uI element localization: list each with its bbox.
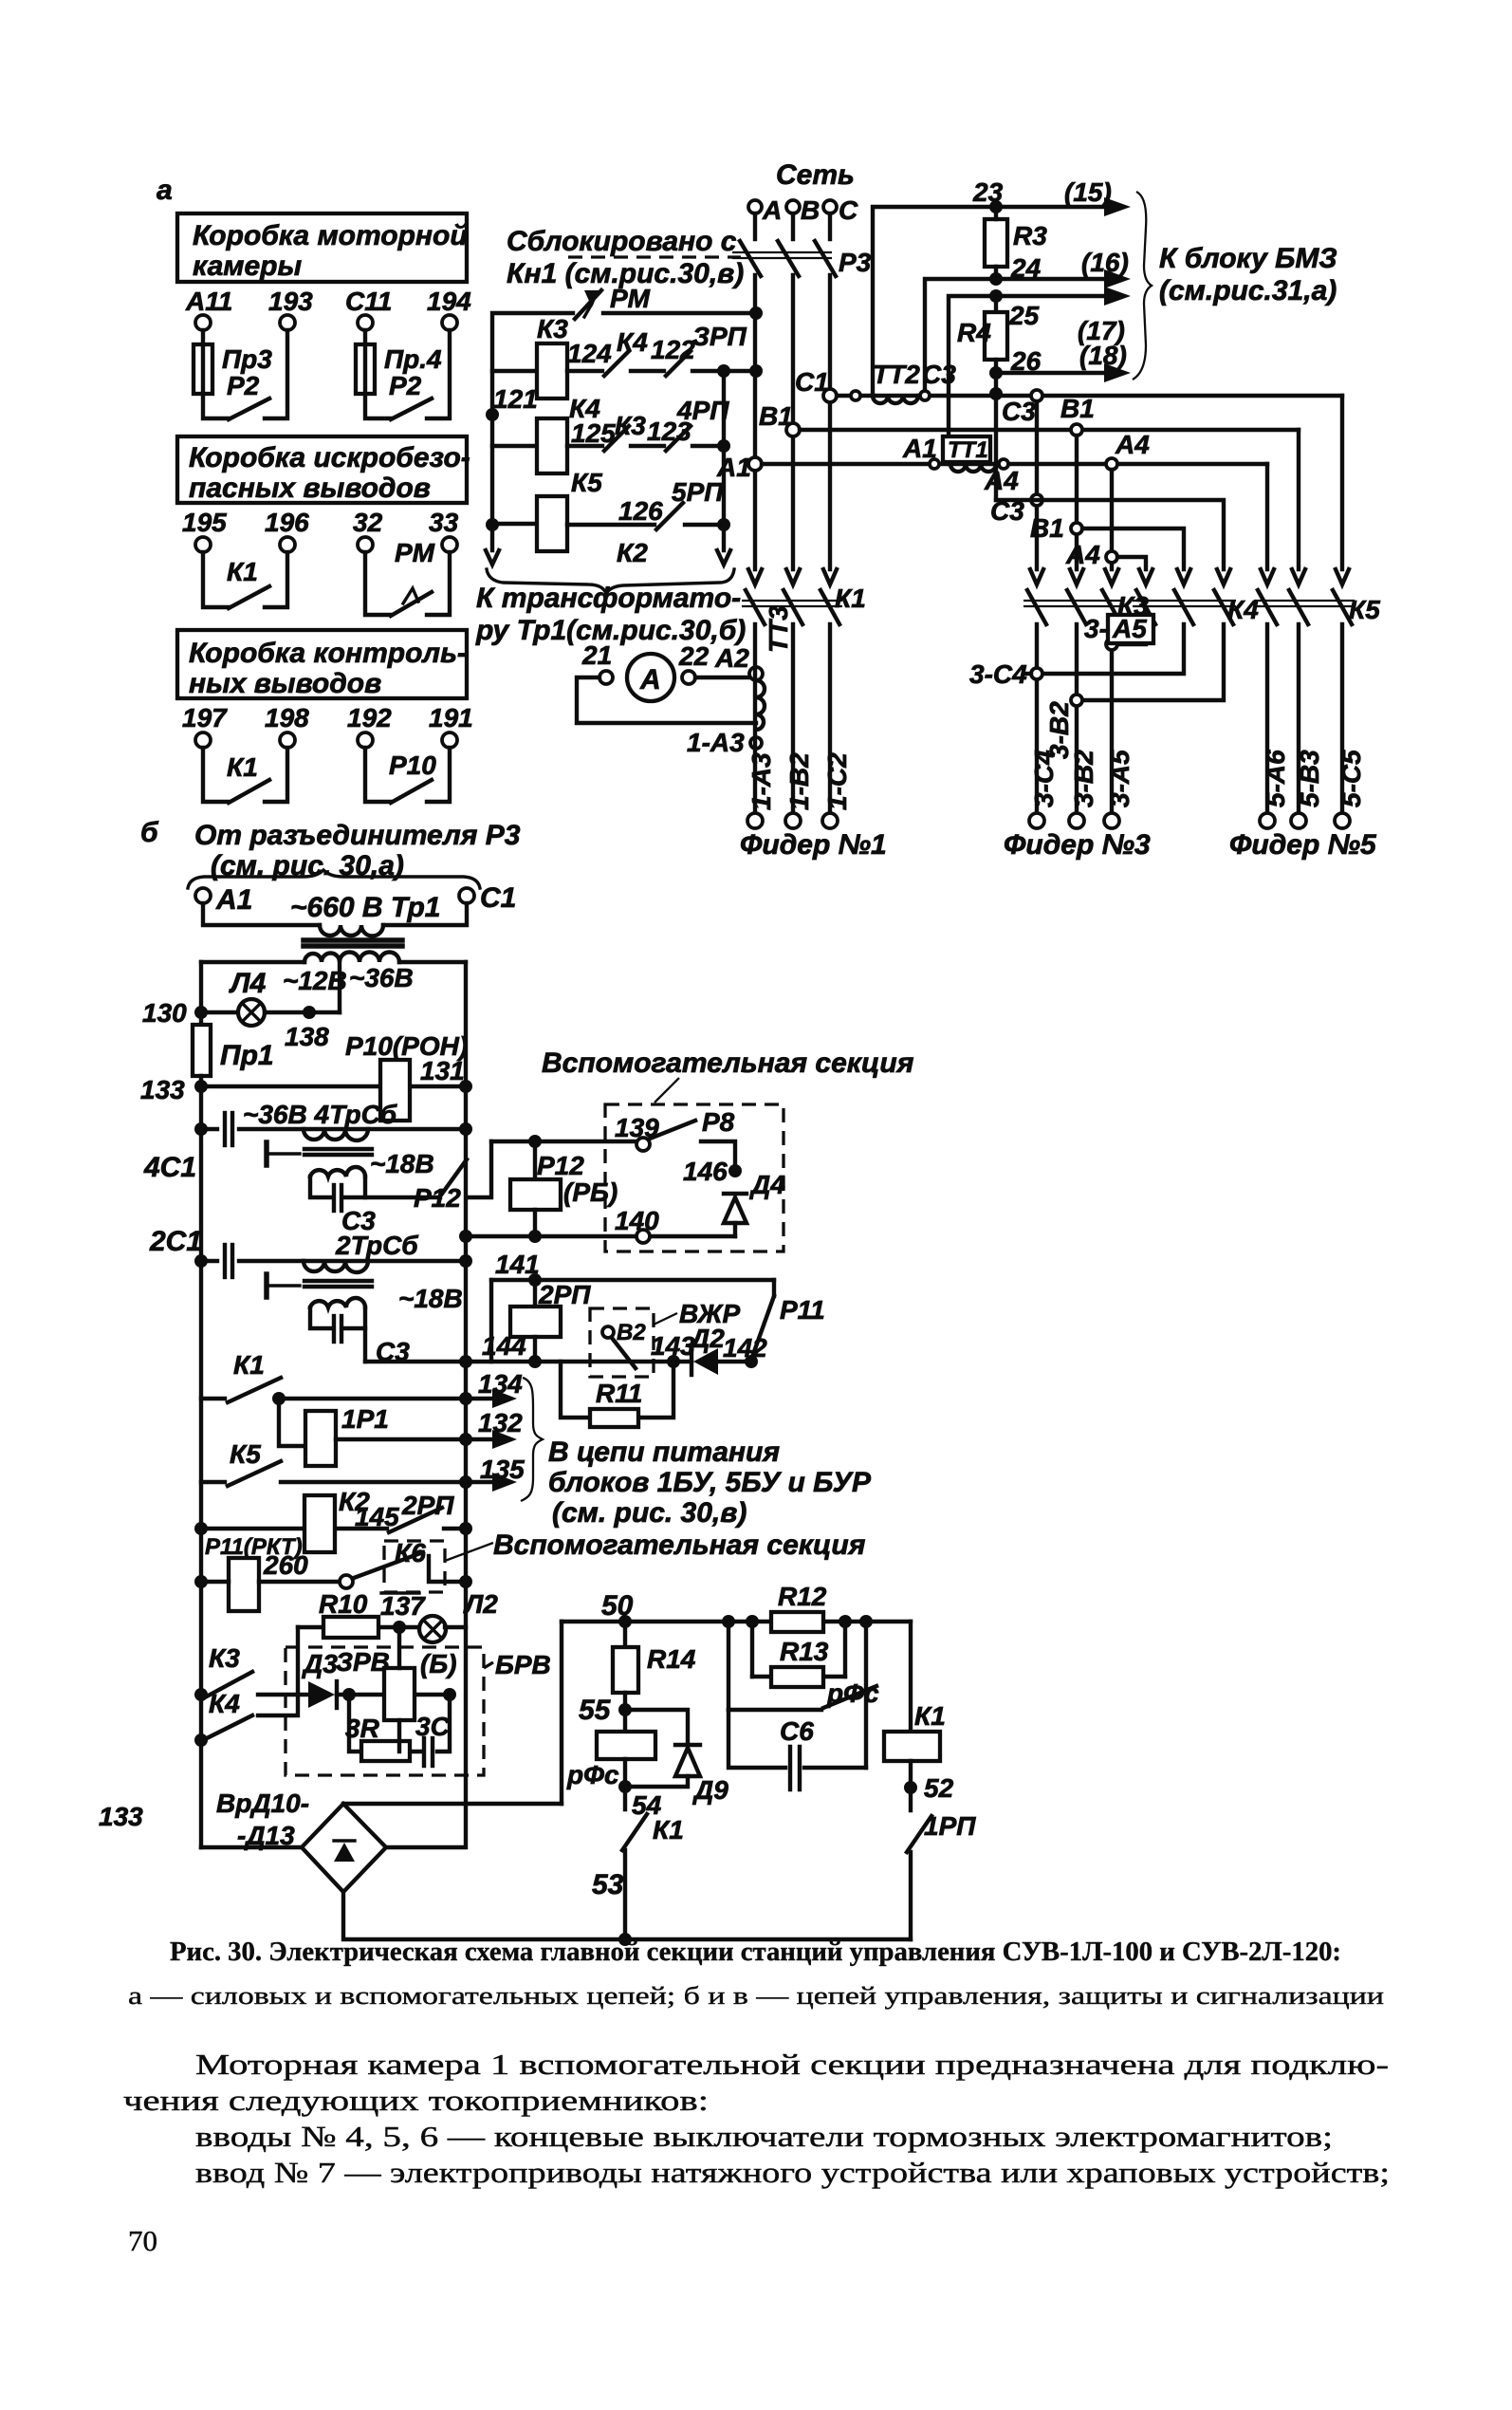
svg-text:5-В3: 5-В3 xyxy=(1295,750,1324,807)
svg-text:2РП: 2РП xyxy=(401,1491,454,1520)
svg-text:БРВ: БРВ xyxy=(495,1650,551,1679)
svg-text:А1: А1 xyxy=(716,453,751,482)
svg-text:К3: К3 xyxy=(209,1643,240,1673)
svg-text:140: 140 xyxy=(615,1206,659,1235)
svg-text:R12: R12 xyxy=(778,1582,827,1611)
svg-text:Фидер №3: Фидер №3 xyxy=(1004,829,1151,861)
svg-text:ТТ2: ТТ2 xyxy=(873,360,920,389)
svg-text:Рис. 30. Электрическая схема: Рис. 30. Электрическая схема главной сек… xyxy=(170,1937,1341,1967)
svg-text:А1: А1 xyxy=(215,884,252,916)
svg-text:R3: R3 xyxy=(1013,221,1047,250)
svg-text:5-С5: 5-С5 xyxy=(1337,750,1366,807)
svg-text:139: 139 xyxy=(615,1113,659,1142)
svg-text:2ТрСб: 2ТрСб xyxy=(335,1231,418,1260)
svg-text:РМ: РМ xyxy=(610,284,651,313)
svg-text:К6: К6 xyxy=(395,1538,426,1567)
svg-text:192: 192 xyxy=(347,703,392,732)
svg-text:Л2: Л2 xyxy=(463,1589,498,1619)
svg-text:К1: К1 xyxy=(653,1815,684,1845)
svg-text:Д9: Д9 xyxy=(692,1775,728,1805)
svg-text:125: 125 xyxy=(571,418,616,448)
svg-text:С1: С1 xyxy=(795,367,829,397)
svg-text:вводы № 4, 5, 6 — концевые вык: вводы № 4, 5, 6 — концевые выключатели т… xyxy=(195,2120,1333,2153)
svg-text:Л4: Л4 xyxy=(229,968,267,999)
svg-text:(15): (15) xyxy=(1064,177,1112,207)
svg-text:В1: В1 xyxy=(1060,394,1095,423)
svg-text:Р8: Р8 xyxy=(702,1107,735,1137)
svg-text:143: 143 xyxy=(651,1331,695,1361)
svg-text:Д4: Д4 xyxy=(749,1170,785,1199)
svg-text:3-В2: 3-В2 xyxy=(1069,750,1098,807)
svg-text:ТТ3: ТТ3 xyxy=(764,605,793,653)
svg-text:3-С4: 3-С4 xyxy=(1029,750,1059,807)
svg-text:1-В2: 1-В2 xyxy=(784,752,814,810)
svg-text:рФс: рФс xyxy=(566,1760,619,1789)
svg-text:В: В xyxy=(801,195,820,225)
svg-text:К1: К1 xyxy=(227,752,258,782)
svg-text:1-С2: 1-С2 xyxy=(822,752,852,810)
svg-text:198: 198 xyxy=(265,703,309,732)
svg-text:193: 193 xyxy=(268,287,313,316)
svg-text:С3: С3 xyxy=(922,360,956,389)
svg-text:3-: 3- xyxy=(1084,614,1108,643)
svg-text:144: 144 xyxy=(482,1331,526,1361)
svg-text:(РБ): (РБ) xyxy=(563,1177,618,1207)
svg-text:К5: К5 xyxy=(1349,595,1380,624)
svg-text:5РП: 5РП xyxy=(672,477,724,507)
svg-text:196: 196 xyxy=(265,508,309,537)
svg-text:26: 26 xyxy=(1010,346,1042,376)
svg-text:А: А xyxy=(639,664,661,695)
svg-text:камеры: камеры xyxy=(193,250,302,282)
svg-text:А11: А11 xyxy=(185,287,232,316)
svg-text:Пр.4: Пр.4 xyxy=(384,344,442,374)
svg-text:Вспомогательная секция: Вспомогательная секция xyxy=(542,1047,914,1079)
svg-text:R14: R14 xyxy=(647,1644,696,1674)
svg-text:R11: R11 xyxy=(596,1379,642,1408)
svg-text:53: 53 xyxy=(592,1869,624,1900)
svg-text:рФс: рФс xyxy=(826,1678,879,1708)
svg-text:70: 70 xyxy=(128,2224,157,2257)
svg-text:~12В: ~12В xyxy=(283,966,347,995)
svg-text:К1: К1 xyxy=(233,1350,265,1380)
svg-text:К4: К4 xyxy=(1227,595,1259,624)
svg-text:1-А3: 1-А3 xyxy=(687,728,745,757)
svg-text:3С: 3С xyxy=(415,1712,451,1741)
svg-text:ных выводов: ных выводов xyxy=(189,668,381,699)
svg-text:С11: С11 xyxy=(345,287,392,316)
svg-text:В цепи питания: В цепи питания xyxy=(548,1437,780,1468)
svg-text:ЗРВ: ЗРВ xyxy=(336,1647,390,1677)
svg-text:50: 50 xyxy=(601,1590,634,1622)
svg-text:(16): (16) xyxy=(1081,248,1129,277)
svg-text:А4: А4 xyxy=(1065,540,1100,569)
svg-text:К блоку БМЗ: К блоку БМЗ xyxy=(1159,243,1337,274)
svg-text:К2: К2 xyxy=(617,538,648,567)
svg-text:В2: В2 xyxy=(617,1320,646,1345)
svg-text:~18В: ~18В xyxy=(398,1284,463,1313)
svg-text:К3: К3 xyxy=(537,314,568,343)
svg-text:А4: А4 xyxy=(984,466,1019,495)
svg-text:К5: К5 xyxy=(571,468,602,497)
svg-text:Р11: Р11 xyxy=(780,1295,825,1325)
svg-text:~36В 4ТрСб: ~36В 4ТрСб xyxy=(243,1100,397,1129)
svg-text:1-А3: 1-А3 xyxy=(747,752,776,810)
svg-text:124: 124 xyxy=(567,339,612,368)
svg-text:С: С xyxy=(839,195,858,225)
svg-text:~18В: ~18В xyxy=(370,1149,434,1178)
svg-text:Коробка контроль-: Коробка контроль- xyxy=(189,638,467,669)
svg-text:24: 24 xyxy=(1010,253,1042,283)
svg-text:Сблокировано с: Сблокировано с xyxy=(507,226,737,257)
svg-text:~36В: ~36В xyxy=(349,963,414,992)
svg-text:23: 23 xyxy=(972,177,1004,207)
svg-text:К3: К3 xyxy=(615,411,646,440)
svg-text:(см. рис. 30,в): (см. рис. 30,в) xyxy=(552,1497,747,1529)
svg-text:146: 146 xyxy=(683,1157,728,1186)
svg-text:В1: В1 xyxy=(1030,513,1064,543)
svg-text:R4: R4 xyxy=(957,318,991,347)
svg-text:Р12: Р12 xyxy=(414,1183,461,1213)
svg-text:3-С4: 3-С4 xyxy=(969,659,1027,689)
svg-text:3R: 3R xyxy=(345,1714,380,1743)
svg-text:R13: R13 xyxy=(780,1637,829,1666)
svg-text:Коробка моторной: Коробка моторной xyxy=(193,220,468,251)
svg-text:32: 32 xyxy=(353,508,383,537)
svg-text:С6: С6 xyxy=(780,1716,814,1746)
svg-text:От разъединителя Р3: От разъединителя Р3 xyxy=(194,820,521,851)
svg-text:142: 142 xyxy=(723,1333,767,1363)
svg-text:(Б): (Б) xyxy=(420,1649,456,1678)
svg-text:133: 133 xyxy=(99,1802,143,1831)
svg-text:130: 130 xyxy=(142,998,187,1028)
svg-text:А: А xyxy=(762,195,782,225)
svg-text:191: 191 xyxy=(429,703,473,732)
svg-text:22: 22 xyxy=(678,641,710,671)
svg-text:чения следующих токоприемников: чения следующих токоприемников: xyxy=(123,2084,709,2117)
svg-text:К4: К4 xyxy=(617,327,648,357)
svg-text:1Р1: 1Р1 xyxy=(341,1404,389,1434)
svg-text:К трансформато-: К трансформато- xyxy=(476,583,741,614)
svg-text:1РП: 1РП xyxy=(924,1811,976,1841)
svg-text:ТТ1: ТТ1 xyxy=(948,437,988,463)
svg-text:Пр1: Пр1 xyxy=(220,1040,274,1071)
svg-text:Коробка искробезо-: Коробка искробезо- xyxy=(189,442,470,473)
svg-text:Д3: Д3 xyxy=(302,1649,338,1678)
svg-text:Фидер №5: Фидер №5 xyxy=(1229,829,1377,861)
svg-text:122: 122 xyxy=(651,335,695,364)
svg-text:21: 21 xyxy=(581,640,612,670)
svg-text:Р10: Р10 xyxy=(389,751,436,780)
svg-text:(18): (18) xyxy=(1079,341,1127,370)
svg-text:а — силовых и вспомогательны: а — силовых и вспомогательных цепей; б и… xyxy=(128,1982,1384,2010)
svg-text:4С1: 4С1 xyxy=(143,1152,196,1183)
svg-text:194: 194 xyxy=(427,287,471,316)
svg-text:ввод № 7 — электроприводы натя: ввод № 7 — электроприводы натяжного устр… xyxy=(195,2156,1390,2189)
svg-text:В1: В1 xyxy=(759,401,793,431)
svg-text:138: 138 xyxy=(285,1022,329,1051)
svg-text:126: 126 xyxy=(618,496,663,526)
svg-text:Д2: Д2 xyxy=(689,1324,725,1353)
svg-text:пасных выводов: пасных выводов xyxy=(189,473,431,504)
svg-text:б: б xyxy=(140,817,159,848)
svg-text:Р2: Р2 xyxy=(389,371,422,400)
svg-text:А4: А4 xyxy=(1115,430,1150,459)
svg-text:РМ: РМ xyxy=(395,538,435,567)
svg-text:260: 260 xyxy=(263,1550,308,1580)
svg-text:Р3: Р3 xyxy=(839,248,872,277)
svg-text:(см.рис.31,а): (см.рис.31,а) xyxy=(1159,275,1337,306)
svg-text:195: 195 xyxy=(182,508,227,537)
svg-text:К4: К4 xyxy=(209,1689,240,1718)
svg-text:К1: К1 xyxy=(227,557,258,586)
svg-text:5-А6: 5-А6 xyxy=(1261,750,1290,807)
svg-text:131: 131 xyxy=(420,1056,465,1085)
svg-text:блоков 1БУ, 5БУ и БУР: блоков 1БУ, 5БУ и БУР xyxy=(548,1467,872,1498)
svg-text:а: а xyxy=(157,175,173,206)
svg-text:R10: R10 xyxy=(319,1589,368,1619)
svg-text:134: 134 xyxy=(478,1369,523,1399)
svg-text:~660 В Тр1: ~660 В Тр1 xyxy=(290,892,441,923)
svg-text:121: 121 xyxy=(493,384,538,414)
svg-text:С1: С1 xyxy=(480,882,516,914)
svg-text:3-А5: 3-А5 xyxy=(1105,750,1134,807)
svg-text:25: 25 xyxy=(1008,301,1040,330)
svg-text:К1: К1 xyxy=(835,584,866,613)
svg-text:А1: А1 xyxy=(902,434,937,463)
svg-text:197: 197 xyxy=(182,703,228,732)
svg-text:145: 145 xyxy=(355,1502,399,1531)
svg-text:2С1: 2С1 xyxy=(149,1226,202,1257)
svg-text:55: 55 xyxy=(579,1695,612,1726)
svg-text:ЗРП: ЗРП xyxy=(692,322,747,351)
svg-text:А5: А5 xyxy=(1112,614,1147,643)
svg-text:Пр3: Пр3 xyxy=(222,344,272,374)
svg-text:Р12: Р12 xyxy=(537,1151,584,1180)
svg-text:А2: А2 xyxy=(714,643,749,673)
svg-text:С3: С3 xyxy=(1002,397,1036,426)
svg-text:К5: К5 xyxy=(230,1439,261,1469)
svg-text:33: 33 xyxy=(429,508,459,537)
svg-text:Моторная камера 1 вспомогат: Моторная камера 1 вспомогательной секции… xyxy=(195,2048,1389,2081)
svg-text:К1: К1 xyxy=(914,1701,946,1731)
svg-text:ВрД10-: ВрД10- xyxy=(216,1789,309,1818)
svg-text:2РП: 2РП xyxy=(538,1280,591,1309)
svg-text:132: 132 xyxy=(478,1408,523,1437)
svg-text:135: 135 xyxy=(480,1455,525,1484)
svg-text:52: 52 xyxy=(924,1773,954,1803)
svg-text:Р2: Р2 xyxy=(227,371,260,400)
svg-text:Вспомогательная секция: Вспомогательная секция xyxy=(493,1529,866,1561)
svg-text:137: 137 xyxy=(380,1591,426,1621)
svg-text:133: 133 xyxy=(140,1075,185,1104)
svg-text:Фидер №1: Фидер №1 xyxy=(740,829,887,861)
svg-text:Сеть: Сеть xyxy=(776,159,855,191)
